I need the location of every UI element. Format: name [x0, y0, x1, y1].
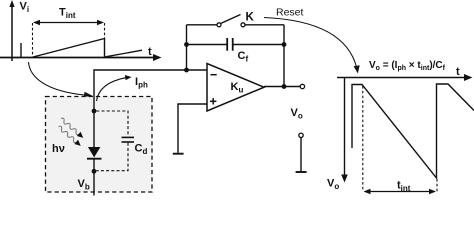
- svg-text:Tint: Tint: [59, 7, 76, 21]
- svg-text:hν: hν: [52, 143, 65, 155]
- svg-text:Vo: Vo: [327, 178, 339, 192]
- svg-text:t: t: [148, 46, 152, 58]
- node A junction dot (diode top): [92, 109, 97, 114]
- capacitor Cd: [122, 137, 135, 142]
- wire switch rail right: [245, 24, 284, 26]
- op-amp U1: [207, 64, 264, 112]
- svg-text:Reset: Reset: [276, 7, 304, 19]
- ground bar (Vo reference): [296, 171, 307, 173]
- junction dot Cf rail left: [184, 42, 189, 47]
- svg-text:Iph: Iph: [135, 76, 148, 90]
- Vi graph t-axis: [0, 54, 162, 61]
- Vi graph y-axis: [9, 0, 14, 61]
- Vo reference terminal circle: [299, 133, 303, 137]
- wire non-inverting input to ground: [178, 104, 207, 153]
- svg-text:Cf: Cf: [238, 50, 249, 64]
- capacitor Cd dashed connection top: [96, 111, 128, 137]
- Vi ramp waveform: [33, 39, 105, 58]
- junction dot output node: [282, 84, 287, 89]
- wire switch rail left: [187, 24, 218, 26]
- op-amp plus sign: [210, 98, 216, 104]
- curved arrow Vi to photodiode node: [29, 62, 93, 98]
- wire photodiode node to op-amp inverting input: [94, 70, 207, 111]
- output terminal circle: [300, 84, 304, 88]
- junction dot Cf rail right: [282, 42, 287, 47]
- Vo sawtooth waveform: [352, 84, 474, 178]
- svg-text:Vo: Vo: [291, 107, 303, 121]
- svg-text:Vi: Vi: [20, 1, 30, 15]
- wire Cf rail right: [234, 44, 285, 46]
- wire op-amp output: [264, 86, 300, 88]
- wire feedback right vertical: [283, 25, 285, 87]
- Vo graph dashed marker right: [436, 179, 438, 192]
- svg-text:t: t: [456, 66, 460, 78]
- Tint measure arrow: [33, 20, 104, 25]
- Vi second ramp segment: [106, 50, 143, 57]
- switch K: [217, 15, 245, 27]
- svg-text:K: K: [246, 12, 255, 24]
- photon wavy arrow 2: [57, 124, 83, 148]
- capacitor Cf: [227, 38, 233, 51]
- svg-text:tint: tint: [397, 180, 411, 194]
- photon wavy arrow 1: [59, 116, 85, 140]
- op-amp minus sign: [211, 74, 217, 76]
- node junction dot (inverting input / feedback left): [184, 68, 189, 73]
- Vo reference wire: [300, 138, 302, 172]
- svg-text:Vo = (Iph × tint)/Cf: Vo = (Iph × tint)/Cf: [369, 60, 446, 72]
- wire diode to Vb: [93, 160, 95, 196]
- Vi graph start pulse: [20, 43, 22, 58]
- ground (op-amp + input): [173, 153, 184, 155]
- wire node A to diode: [93, 111, 95, 147]
- photodiode D1: [87, 147, 102, 159]
- wire feedback left vertical: [186, 25, 188, 70]
- tint measure arrow: [364, 189, 437, 194]
- Vo graph V-axis: [341, 78, 348, 183]
- node B junction dot (diode bottom): [92, 169, 97, 174]
- Iph current arrow: [97, 75, 132, 101]
- Vo graph t-axis: [337, 74, 473, 81]
- Vo graph dashed marker left: [362, 86, 364, 191]
- Vi graph dashed marker left: [32, 23, 34, 57]
- Vi graph dashed marker right: [104, 23, 106, 57]
- Reset curved arrow: [264, 18, 360, 74]
- capacitor Cd dashed connection bottom: [96, 143, 128, 171]
- wire Cf rail left: [187, 44, 227, 46]
- photodiode dashed box: [46, 97, 153, 193]
